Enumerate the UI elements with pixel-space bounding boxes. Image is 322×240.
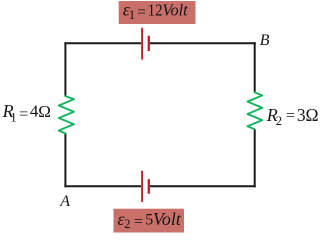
wire bottom-right segment <box>150 185 256 187</box>
wire left upper segment <box>64 42 66 96</box>
battery E1 <box>142 28 149 60</box>
svg-text:A: A <box>59 193 70 210</box>
label R1 value <box>2 101 51 125</box>
label box E1 value <box>119 0 196 24</box>
wire top-left segment <box>64 42 141 44</box>
wire left lower segment <box>64 133 66 187</box>
svg-text:R1=4Ω: R1=4Ω <box>2 101 51 125</box>
resistor R1 <box>59 96 74 133</box>
svg-text:R2=3Ω: R2=3Ω <box>266 105 319 128</box>
node B <box>260 32 270 49</box>
wire bottom-left segment <box>64 185 141 187</box>
wire right lower segment <box>254 129 256 187</box>
resistor R2 <box>248 92 263 129</box>
battery E2 <box>142 171 149 202</box>
label R2 value <box>266 105 319 128</box>
wire top-right segment <box>150 42 256 44</box>
svg-text:B: B <box>260 32 270 49</box>
label box E2 value <box>114 209 185 233</box>
node A <box>59 193 70 210</box>
wire right upper segment <box>254 42 256 92</box>
